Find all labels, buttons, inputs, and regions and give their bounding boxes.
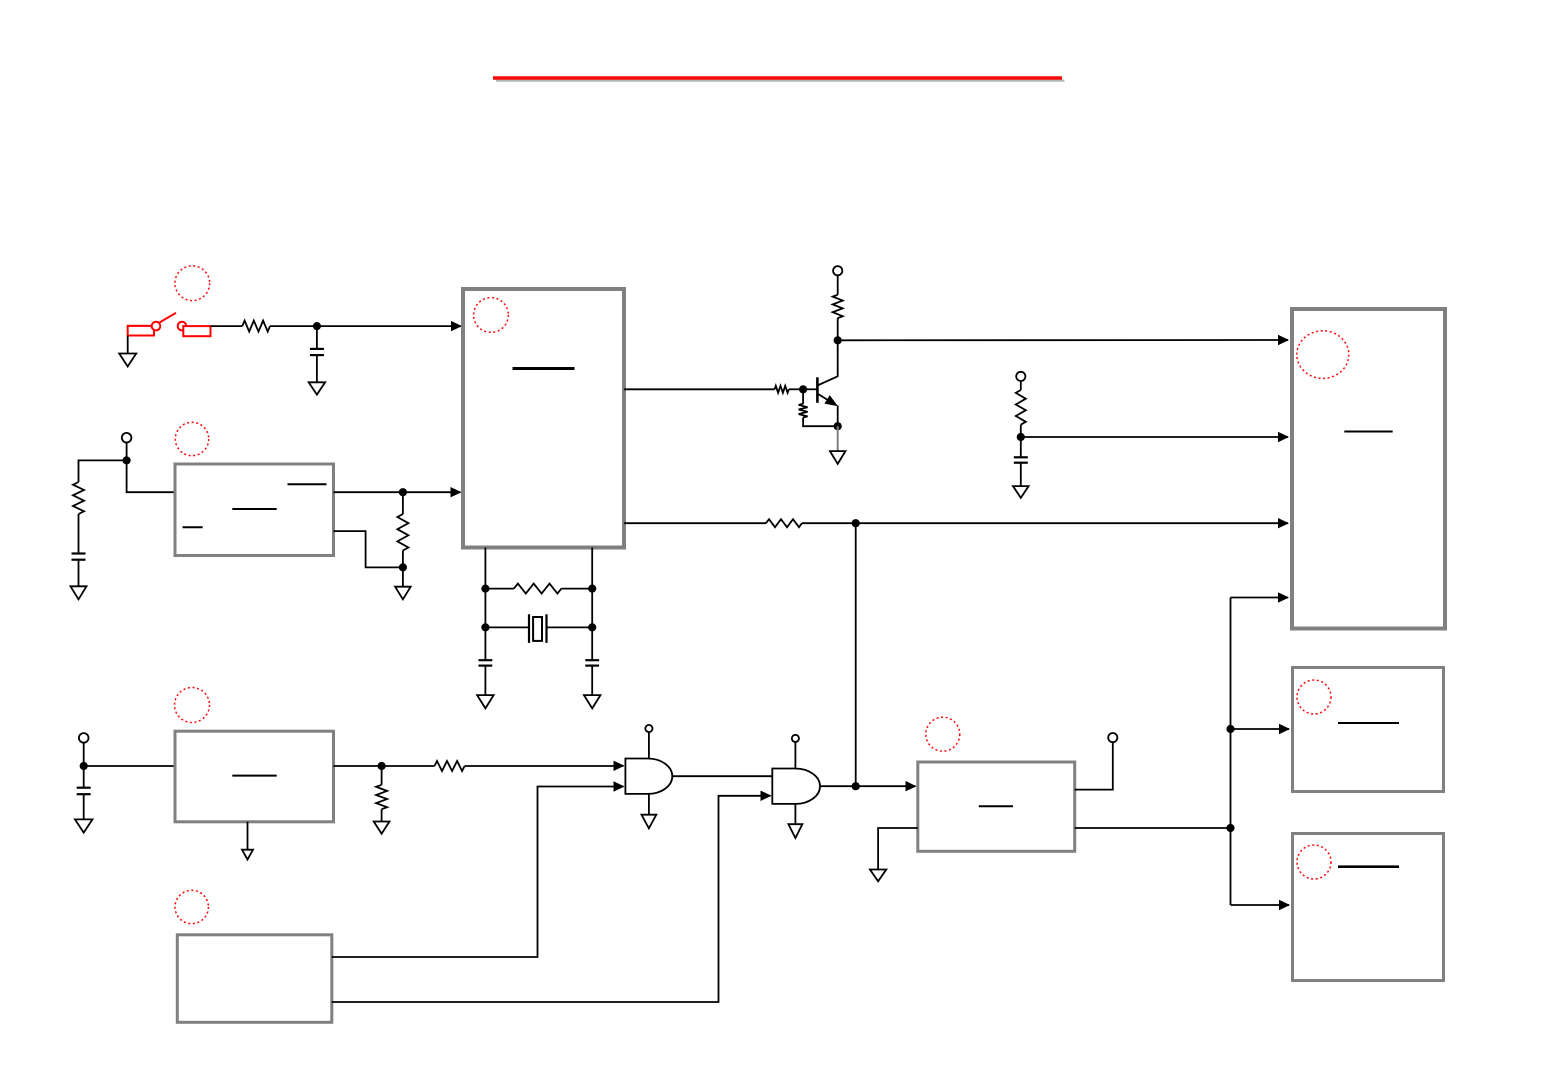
arrow into U1 pin 1 — [451, 321, 462, 331]
wire bus to M3 input — [1231, 904, 1290, 906]
U2 label line 3 — [183, 526, 203, 528]
capacitor C3 — [479, 659, 493, 661]
wire T4 to node H — [83, 743, 85, 766]
node VIN junction — [313, 322, 321, 330]
wire X1b to crystal — [485, 626, 529, 628]
terminal T6 (G2 power) — [792, 735, 799, 742]
M1 label line — [1344, 431, 1392, 433]
node I junction — [378, 762, 386, 770]
node H junction — [80, 762, 88, 770]
wire Q1 emitter to node EM — [837, 406, 839, 427]
latch U4 box — [918, 762, 1075, 851]
wire R10 to gate G1 input 1 — [465, 765, 624, 767]
ground (C2) — [71, 586, 87, 599]
terminal T7 — [1108, 733, 1117, 742]
wire G2 output to node G — [820, 785, 856, 787]
wire R8 to node E — [1020, 425, 1022, 437]
wire U2 output to node C — [334, 491, 403, 493]
annotation circle A2 (over U2) — [175, 422, 208, 455]
arrow into G1 input 2 — [614, 781, 625, 791]
wire R9 to node F — [802, 522, 856, 524]
M2 label line — [1338, 722, 1399, 724]
ground (Q1 emitter) — [830, 451, 846, 464]
AND gate G2 — [772, 769, 820, 804]
wire G1 output to G2 input 1 — [672, 775, 772, 777]
resistor R11 — [376, 785, 387, 809]
resistor R3 — [397, 514, 408, 551]
node B junction — [123, 456, 131, 464]
wire R1 to node VIN — [270, 325, 317, 327]
annotation circle A9 (over U5) — [175, 890, 208, 923]
wire R4 to X2 — [561, 588, 592, 590]
wire node F to M1 input 3 — [856, 522, 1288, 524]
wire switch to R1 — [211, 325, 243, 327]
wire node H to U3 input — [84, 765, 175, 767]
wire C4 to ground — [591, 666, 593, 696]
title underline shadow — [496, 80, 1065, 82]
wire X1 to R4 — [485, 588, 514, 590]
M3 label line — [1338, 865, 1399, 868]
AND gate G1 — [625, 759, 672, 794]
wire U3 gnd pin down — [247, 822, 249, 850]
resistor R7 — [833, 295, 843, 318]
module M2 box — [1293, 668, 1444, 792]
node X2 junction — [588, 585, 596, 593]
wire G2 to ground — [794, 804, 796, 824]
title underline (red rule) — [493, 76, 1062, 79]
wire node B to R2 — [79, 460, 127, 482]
resistor R5 — [775, 386, 789, 393]
ground (U4) — [870, 870, 886, 882]
ground (U3) — [242, 850, 253, 860]
capacitor C6 — [77, 787, 91, 789]
microcontroller U1 box — [463, 289, 624, 548]
node X1b junction — [481, 623, 489, 631]
transistor Q1 — [817, 376, 838, 406]
node C junction — [399, 488, 407, 496]
ground (R11) — [374, 822, 390, 834]
resistor R8 — [1016, 390, 1026, 425]
wire R6 to node EM — [803, 418, 838, 427]
wire R3 to node D — [402, 551, 404, 568]
wire U4 out2 to bus node J — [1075, 827, 1231, 829]
arrow into M3 input — [1279, 900, 1290, 910]
bus vertical wire — [1230, 598, 1232, 906]
arrow into G2 input 2 — [761, 791, 772, 801]
wire U5 output 2 to G2 input 2 — [332, 796, 771, 1002]
U3 label line — [232, 775, 276, 777]
U2 label line 2 — [232, 508, 276, 510]
ground (C6) — [75, 819, 93, 832]
ground (switch S1) — [119, 354, 136, 367]
wire C3 to ground — [484, 666, 486, 696]
wire node EM to ground (gray) — [837, 426, 839, 451]
wire bus to M1 input 4 — [1231, 597, 1289, 599]
wire U1 XTAL1 pin down — [484, 548, 486, 628]
terminal T4 — [79, 733, 89, 743]
ground (C1) — [309, 382, 326, 394]
wire COLL to R7 — [837, 318, 839, 340]
resistor R2 — [73, 482, 84, 514]
U2 label line 1 — [288, 483, 327, 485]
annotation circle A6 (inside M1) — [1297, 331, 1349, 379]
node J junction — [1226, 824, 1234, 832]
wire U4 gnd pin to ground — [878, 828, 918, 870]
wire node I to R10 — [382, 765, 435, 767]
crystal Y1 — [529, 614, 547, 643]
arrow into M1 input 2 — [1278, 432, 1289, 442]
arrow into M2 input — [1279, 724, 1290, 734]
wire node VIN to C1 — [316, 326, 318, 349]
ground (node D) — [395, 587, 411, 600]
wire C6 to ground — [83, 794, 85, 819]
ground (G2) — [788, 824, 802, 838]
wire G1 to ground — [648, 794, 650, 815]
regulator U2 box — [175, 464, 334, 556]
capacitor C2 — [72, 552, 86, 554]
node D junction — [399, 563, 407, 571]
arrow into M1 input 4 — [1278, 592, 1289, 602]
wire X2b to C4 — [591, 627, 593, 660]
annotation circle A3 (inside U1) — [474, 298, 509, 333]
wire switch pole to ground — [127, 336, 129, 354]
wire node E to C5 — [1020, 437, 1022, 457]
wire node H to C6 — [83, 766, 85, 788]
wire R2 to C2 — [78, 514, 80, 554]
switch S1 pole terminal — [128, 322, 161, 336]
module M1 box — [1292, 309, 1445, 629]
annotation circle A4 (over U3) — [175, 688, 210, 723]
ground (C4) — [584, 695, 601, 708]
wire node I to R11 — [381, 766, 383, 785]
arrow into U1 pin 2 — [451, 487, 462, 497]
resistor R4 — [514, 584, 562, 594]
wire U4 out1 to terminal T7 — [1075, 742, 1113, 789]
switch S1 throw terminal — [178, 322, 211, 336]
node K junction — [1226, 725, 1234, 733]
arrow into M1 input 3 — [1278, 518, 1289, 528]
capacitor C4 — [585, 659, 599, 661]
resistor R9 — [766, 519, 802, 527]
resistor R6 (base pulldown) — [802, 389, 804, 404]
wire U1 TX pin to R5 — [624, 388, 775, 390]
wire node E to M1 input 2 — [1021, 436, 1288, 438]
wire node C to U1 pin 2 — [403, 491, 461, 493]
wire node B to U2 input — [127, 460, 175, 492]
wire COLL to module M1 input 1 — [838, 339, 1288, 341]
annotation circle A5 (over U4) — [926, 717, 960, 751]
wire node K to M2 input — [1231, 728, 1290, 730]
wire C1 to ground — [316, 355, 318, 382]
wire node G to U4 input — [856, 785, 916, 787]
wire C2 to ground — [78, 560, 80, 587]
arrow into U4 input — [906, 781, 917, 791]
annotation circle A8 (inside M3) — [1297, 845, 1331, 879]
resistor R10 — [435, 761, 465, 771]
module M3 box — [1293, 834, 1444, 981]
wire node VIN to U1 pin 1 — [317, 325, 461, 327]
comparator U5 box — [177, 935, 331, 1023]
wire Q1 collector up — [837, 340, 839, 377]
ground (G1) — [642, 815, 657, 829]
wire node C to R3 — [402, 492, 404, 514]
wire C5 to ground — [1020, 463, 1022, 486]
wire R7 to terminal T2 — [837, 275, 839, 294]
wire X1b to C3 — [484, 627, 486, 660]
terminal T2 (pull-up supply) — [833, 266, 842, 275]
wire U3 output to node I — [334, 765, 382, 767]
capacitor C5 — [1014, 456, 1028, 458]
node X1 junction — [481, 585, 489, 593]
ground (C3) — [477, 695, 494, 708]
node E junction — [1017, 433, 1025, 441]
wire crystal to X2b — [547, 626, 593, 628]
wire T5 to G1 — [648, 732, 650, 758]
wire node BASE to Q1 base — [803, 388, 817, 390]
capacitor C1 — [310, 348, 324, 350]
node G junction — [852, 782, 860, 790]
wire U2 gnd pin to node D — [334, 531, 403, 567]
annotation circle A7 (inside M2) — [1297, 680, 1331, 714]
arrow into G1 input 1 — [614, 761, 625, 771]
node F junction — [852, 519, 860, 527]
wire U1 DATA pin to R9 — [624, 522, 766, 524]
node EM junction — [834, 422, 842, 430]
arrow into M1 input 1 — [1278, 335, 1289, 345]
node BASE junction — [799, 385, 807, 393]
wire U1 XTAL2 pin down — [591, 548, 593, 628]
wire R11 to ground — [381, 809, 383, 821]
node COLL junction — [834, 336, 842, 344]
sensor U3 box — [175, 731, 334, 822]
terminal T3 — [1016, 372, 1025, 381]
ground (C5) — [1013, 486, 1029, 498]
wire T6 to G2 — [794, 742, 796, 769]
wire T1 to node B — [126, 443, 128, 461]
U4 label line — [979, 805, 1013, 807]
wire R5 to node BASE — [789, 388, 803, 390]
node X2b junction — [588, 623, 596, 631]
switch S1 lever — [160, 313, 177, 323]
wire node D to ground — [402, 567, 404, 586]
wire node F down to node G — [855, 523, 857, 786]
U1 label line — [513, 367, 575, 370]
terminal T5 (G1 power) — [645, 725, 652, 732]
terminal T1 (left input) — [122, 433, 132, 443]
annotation circle A1 (over switch S1) — [175, 266, 210, 301]
resistor R1 — [242, 321, 270, 332]
wire U5 output 1 to G1 input 2 — [332, 787, 624, 958]
wire T3 to R8 — [1020, 381, 1022, 390]
